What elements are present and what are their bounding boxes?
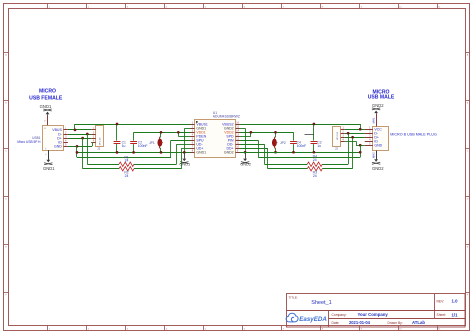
U1 left pin stubs [191, 125, 195, 153]
svg-text:ADUM4160BRWZ: ADUM4160BRWZ [213, 114, 240, 118]
connector USB2 Micro B USB male body [373, 127, 389, 151]
junction D- row right [347, 132, 350, 135]
ground flag GND2 below U1 right [240, 152, 251, 166]
wire GND2 pin2 riser [240, 128, 246, 152]
junction GND rail right end [359, 151, 362, 154]
svg-text:JP1: JP1 [149, 141, 155, 145]
svg-text:Sheet_1: Sheet_1 [311, 300, 332, 306]
svg-text:JP2: JP2 [280, 141, 286, 145]
junction JP2 top [274, 131, 277, 134]
ground flag GND2 below USB2 [372, 151, 384, 171]
wire R4 right riser to D- row [322, 133, 348, 164]
resistor R1 24 [119, 155, 134, 166]
U1 right pin numbers [236, 122, 239, 153]
junction GND row right [359, 144, 362, 147]
fuse JP2 [272, 132, 286, 152]
svg-text:GND1: GND1 [179, 161, 190, 166]
op-amp U1 ADUM4160BRWZ body [195, 120, 236, 158]
wire SPD tap to VDD2 rail [240, 132, 251, 136]
ground flag GND1 above USB1 [40, 104, 52, 116]
junction VBUS riser [74, 129, 77, 132]
wire D+ row from USB1 to J1 [68, 138, 91, 140]
wire DD+ to lower rail [240, 148, 308, 168]
title block row divider 1 [286, 310, 465, 312]
capacitor C1 1u [114, 124, 126, 152]
wire GND row riser to PIN rail [360, 145, 362, 157]
fuse JP1 [149, 132, 163, 152]
ground flag GND1 below U1 left [179, 152, 190, 166]
wire SPU rail [77, 157, 171, 159]
svg-text:GND: GND [54, 145, 62, 149]
svg-text:24: 24 [313, 174, 317, 178]
capacitor C4 100nF [290, 132, 306, 152]
svg-text:1u: 1u [317, 144, 321, 148]
svg-text:Date:: Date: [332, 321, 340, 325]
wire SPU riser and entry to chip [171, 140, 191, 157]
junction JP1 top [160, 131, 163, 134]
svg-text:GND2: GND2 [224, 151, 234, 155]
connector USB2 pin names [374, 127, 382, 147]
junction C1 top [116, 123, 119, 126]
wire J2 pin1 row to USB2 VCC [345, 129, 365, 131]
svg-text:Micro USB 5P H: Micro USB 5P H [17, 140, 41, 144]
svg-text:24: 24 [125, 159, 129, 163]
wire VBUS riser [74, 124, 76, 130]
U1 pin 1 marker dot [196, 121, 198, 123]
capacitor C2 100nF [130, 132, 147, 152]
svg-text:TITLE:: TITLE: [289, 295, 298, 299]
junction C3 top [313, 123, 316, 126]
wire R2 right to UD+ riser [134, 148, 191, 168]
label MICRO USB MALE [368, 89, 395, 100]
wire DD- to lower rail [240, 144, 308, 164]
capacitor C3 1u [311, 124, 322, 152]
title block outline [287, 294, 466, 328]
svg-text:Drawn By:: Drawn By: [388, 321, 403, 325]
svg-text:GND1: GND1 [196, 151, 206, 155]
header J1 pin stubs and numbers [91, 127, 95, 142]
svg-text:1u: 1u [122, 144, 126, 148]
connector USB2 pin stubs [365, 130, 373, 146]
title block Company label and value [332, 312, 389, 317]
connector USB1 pin names [52, 128, 62, 148]
svg-text:REV:: REV: [437, 299, 445, 303]
wire GND1 rail [77, 152, 191, 154]
EasyEDA logo cloud [286, 313, 298, 322]
svg-text:1.0: 1.0 [452, 299, 459, 304]
svg-text:2021-01-04: 2021-01-04 [349, 320, 371, 325]
title block rev column divider [434, 294, 436, 319]
svg-text:GND: GND [374, 143, 382, 147]
wire GND2 rail [240, 152, 361, 154]
junction GND rail at riser [76, 151, 79, 154]
title block Date label and value [332, 320, 371, 325]
svg-text:100nF: 100nF [138, 144, 148, 148]
U1 left pin numbers [192, 122, 194, 153]
svg-text:MH2: MH2 [372, 152, 376, 158]
connector USB1 pin stubs [64, 130, 68, 147]
junction JP2 bottom [274, 151, 277, 154]
svg-text:MH1: MH1 [372, 117, 376, 123]
junction D+ row right [351, 136, 354, 139]
svg-text:J1: J1 [97, 147, 101, 151]
svg-text:USB MALE: USB MALE [368, 95, 395, 101]
label MICRO USB FEMALE [29, 89, 63, 102]
frame row letters [5, 54, 469, 297]
wire R3 right riser to D+ row [322, 137, 352, 169]
svg-text:MICRO B USB MALE PLUG: MICRO B USB MALE PLUG [390, 133, 437, 137]
wire GND row from USB1 [68, 146, 92, 148]
ground flag GND1 below USB1 [43, 150, 55, 171]
junction D- row [86, 133, 89, 136]
U1 right pin stubs [236, 125, 240, 153]
junction C1 bottom [116, 151, 119, 154]
connector USB2 shield pin bottom MH2 [372, 151, 377, 160]
wire GND riser to SPU rail [76, 146, 78, 157]
wire J2 pin4 jog to GND row [345, 141, 365, 145]
connector USB2 pin numbers 1-5 [369, 126, 371, 146]
wire D- row from USB1 to J1 [68, 134, 91, 136]
svg-text:Your Company: Your Company [358, 312, 389, 317]
wire VBUS row from USB1 to J1 [68, 129, 91, 131]
svg-text:GND1: GND1 [40, 104, 52, 109]
resistor R4 24 [307, 155, 322, 167]
wire VDD2 rail [240, 132, 294, 134]
connector USB1 Micro USB 5P female body [43, 126, 64, 151]
wire jog up to J1 pin 4 [91, 142, 92, 146]
svg-text:GND2: GND2 [372, 103, 384, 108]
svg-text:Sheet:: Sheet: [437, 313, 447, 317]
wire stub near C3 [305, 134, 314, 136]
svg-text:Company:: Company: [332, 313, 347, 317]
wire D+ riser down [82, 138, 84, 169]
wire J2 pin3 row to USB2 D+ [345, 137, 365, 139]
wire VBUS1 rail [75, 124, 191, 126]
wire D- lower-left rail to R1 [87, 164, 119, 166]
connector USB1 pin numbers 1-5 [65, 126, 67, 146]
resistor R3 24 [307, 167, 322, 178]
ground flag GND2 above USB2 [372, 103, 384, 114]
junction GND row [76, 145, 79, 148]
wire PIN net riser and rail [240, 140, 361, 157]
junction SPD tap [250, 131, 253, 134]
svg-text:GND2: GND2 [240, 161, 251, 166]
wire GND1 pin2 riser [185, 128, 191, 152]
header J2 body [333, 127, 341, 147]
title block Drawn By label and value [388, 320, 426, 325]
junction C3 bottom [313, 151, 316, 154]
junction GND2 rail to flag [244, 151, 247, 154]
svg-text:100nF: 100nF [297, 144, 307, 148]
junction D+ row [81, 137, 84, 140]
wire VBUS2 rail [240, 124, 361, 129]
wire D+ lower-left rail to R2 [83, 168, 119, 170]
svg-text:4P-2.54: 4P-2.54 [337, 131, 339, 139]
junction PDEN tap [177, 131, 180, 134]
svg-text:24: 24 [125, 174, 129, 178]
svg-text:24: 24 [313, 158, 317, 162]
junction C2 bottom [132, 151, 135, 154]
svg-text:ATLab: ATLab [412, 320, 425, 325]
junction VCC row [359, 128, 362, 131]
junction GND rail to flag [183, 151, 186, 154]
svg-text:EasyEDA: EasyEDA [299, 316, 327, 323]
svg-text:GND1: GND1 [43, 166, 55, 171]
svg-text:J2: J2 [335, 146, 339, 150]
frame row ticks left and right [4, 53, 470, 293]
header J1 body [96, 126, 104, 147]
connector USB1 shield pin top [44, 116, 47, 130]
U1 left pin names [196, 123, 208, 155]
wire VDD1 rail [134, 132, 191, 134]
svg-text:1/1: 1/1 [452, 312, 459, 317]
wire J2 pin2 row to USB2 D- [345, 133, 365, 135]
U1 right pin names [222, 123, 234, 155]
wire PDEN tap to VDD1 rail [178, 132, 190, 136]
svg-text:MICRO: MICRO [39, 89, 56, 95]
svg-text:USB FEMALE: USB FEMALE [29, 96, 63, 102]
title block logo cell divider [328, 311, 330, 327]
junction C4 bottom [292, 151, 295, 154]
wire D- riser down [87, 134, 89, 164]
header J2 pin stubs and numbers [341, 127, 345, 142]
connector USB2 shield pin top MH1 [372, 114, 377, 127]
junction JP1 bottom [160, 151, 163, 154]
wire R1 right to UD- riser [134, 144, 191, 164]
connector USB1 shield pin bottom [45, 148, 49, 160]
title block row divider 2 [329, 318, 465, 320]
title block REV label and value [437, 299, 459, 304]
title block Sheet label and value [437, 312, 459, 317]
resistor R2 24 [119, 167, 134, 178]
svg-text:4P-2.54: 4P-2.54 [100, 137, 102, 145]
svg-text:GND2: GND2 [372, 166, 384, 171]
